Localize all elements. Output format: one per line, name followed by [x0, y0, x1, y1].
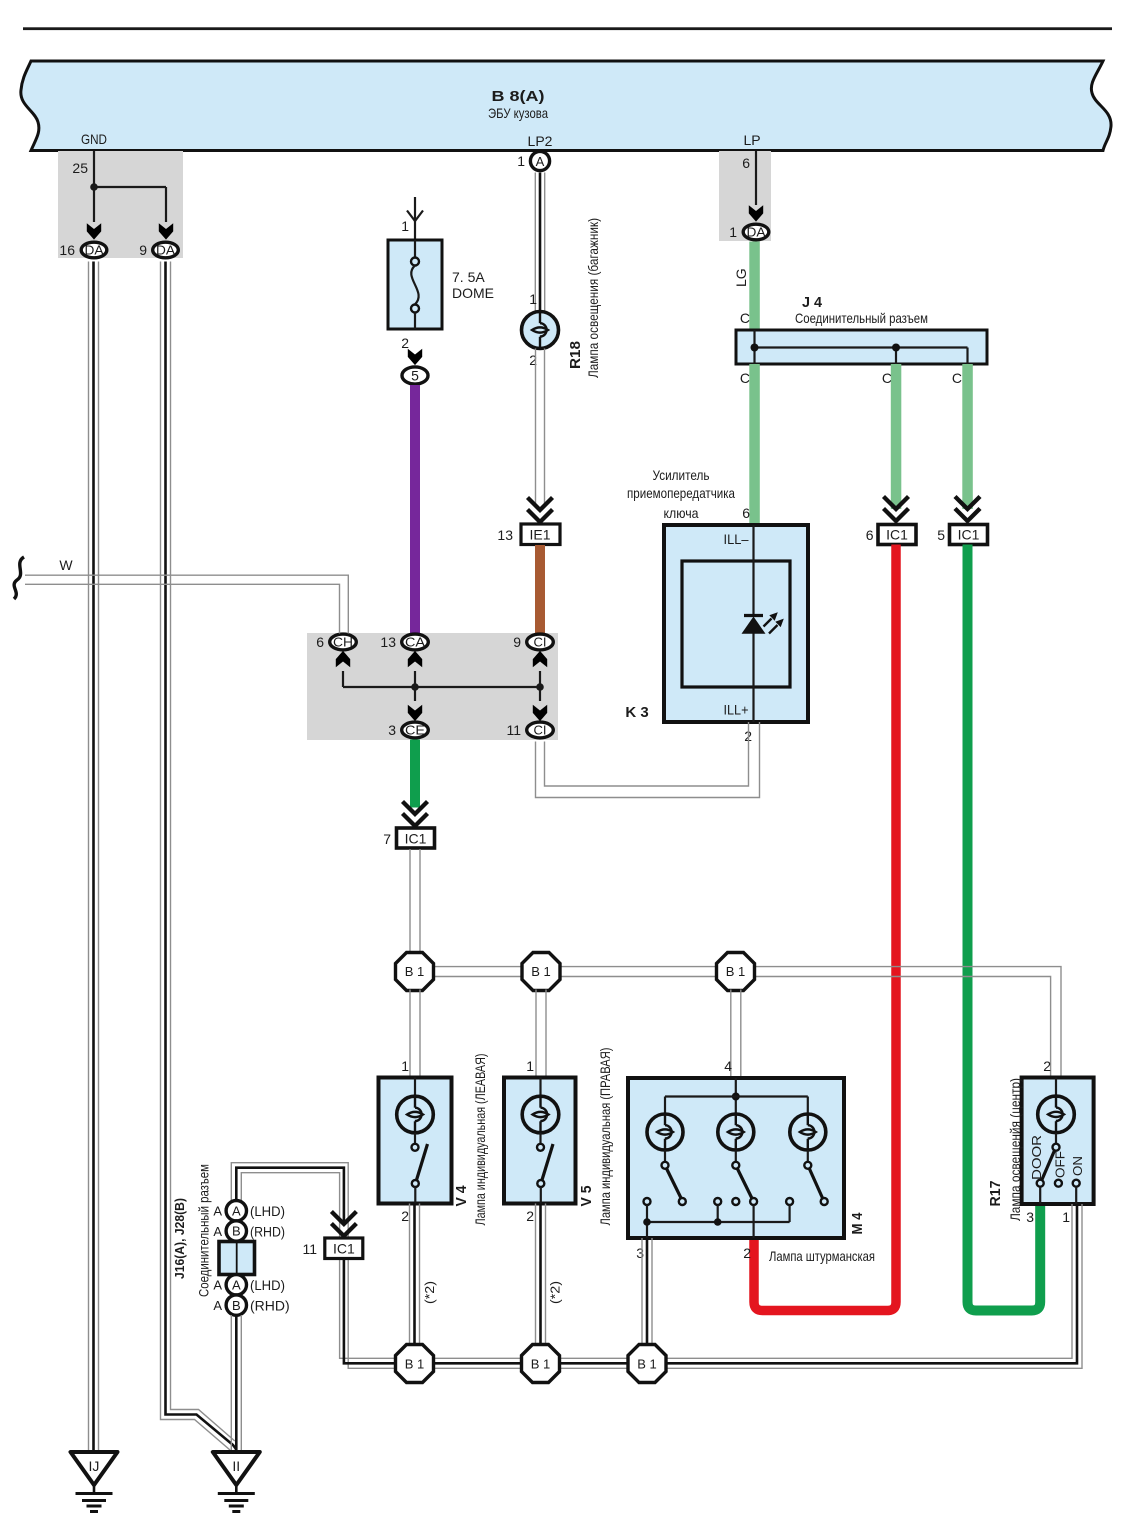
LED emission arrows — [764, 619, 772, 627]
wire LP to DA — [755, 151, 757, 205]
svg-text:R17: R17 — [987, 1181, 1004, 1207]
wire white B1 to V5 pin1 — [536, 990, 546, 1078]
arrow up into CI-9 — [533, 651, 547, 667]
svg-text:ON: ON — [1070, 1156, 1085, 1176]
wire W-B LP2 to lamp R18 — [535, 173, 544, 313]
svg-text:IC1: IC1 — [405, 831, 427, 847]
svg-text:Лампа индивидуальная (ЛЕАВАЯ): Лампа индивидуальная (ЛЕАВАЯ) — [472, 1054, 488, 1226]
arrow into IC1 pin11 — [331, 1212, 356, 1237]
wire W-B V5 pin2 to B1 — [536, 1204, 546, 1347]
svg-text:ILL–: ILL– — [724, 531, 749, 547]
svg-text:DA: DA — [85, 243, 104, 258]
wire white B1 to M4 pin4 — [731, 990, 741, 1079]
connector CH pin 6 — [316, 634, 356, 650]
svg-text:1: 1 — [526, 1058, 534, 1074]
svg-text:J 4: J 4 — [802, 294, 823, 311]
wire white bus B1 row top — [433, 967, 1062, 1078]
svg-text:V 5: V 5 — [578, 1186, 595, 1207]
svg-text:(RHD): (RHD) — [250, 1223, 285, 1239]
svg-text:A: A — [536, 154, 545, 169]
svg-text:5: 5 — [937, 527, 945, 543]
octagon B1 c — [717, 953, 755, 991]
svg-text:Соединительный разъем: Соединительный разъем — [196, 1164, 212, 1297]
connector 5 — [402, 367, 428, 384]
arrow into DA pin16 — [87, 223, 101, 239]
wire W-B from DA16 down to ground IJ — [89, 262, 99, 1453]
svg-text:C: C — [882, 370, 892, 386]
connector IC1 pin 5 — [937, 525, 987, 545]
wire white CI-11 to K3 pin2 — [536, 722, 760, 798]
switch V5 — [537, 1144, 544, 1151]
svg-text:(RHD): (RHD) — [250, 1297, 290, 1313]
wire white IC1-7 to B1 — [410, 849, 420, 954]
connector CI pin 9 — [513, 634, 553, 650]
connector circle A (LHD) top — [213, 1201, 285, 1221]
svg-text:6: 6 — [742, 155, 750, 171]
wire W-B bus B1b to B1c — [559, 1358, 630, 1368]
svg-text:C: C — [740, 370, 750, 386]
svg-text:1: 1 — [517, 153, 525, 169]
svg-text:6: 6 — [316, 634, 324, 650]
connector A pin 1 (LP2) — [517, 151, 549, 170]
octagon B1 b — [522, 953, 560, 991]
arrow into IC1 pin7 — [403, 802, 428, 827]
wire W-B from DA9 down and bent to ground II — [161, 262, 237, 1453]
octagon B1 f — [628, 1345, 666, 1383]
arrow into DA pin9 — [159, 223, 173, 239]
ground IJ — [71, 1452, 118, 1512]
svg-text:A: A — [232, 1278, 241, 1293]
lamp V4 individual (left) — [379, 1078, 452, 1204]
svg-text:A: A — [213, 1298, 222, 1313]
top border rule — [23, 27, 1112, 30]
wire G (green) CE to IC1 pin7 — [410, 740, 420, 808]
svg-text:A: A — [213, 1224, 222, 1239]
svg-text:ILL+: ILL+ — [724, 702, 749, 718]
svg-text:CH: CH — [333, 635, 353, 650]
svg-text:2: 2 — [401, 1208, 409, 1224]
svg-text:3: 3 — [1026, 1209, 1034, 1225]
svg-text:CI: CI — [534, 723, 547, 738]
svg-text:IC1: IC1 — [886, 527, 908, 543]
wire W-B M4 pin3 to B1 — [642, 1238, 652, 1346]
connector CI pin 11 — [506, 722, 553, 738]
svg-text:II: II — [232, 1458, 240, 1474]
wire W-B bus B1c to R17 pin1 — [665, 1204, 1082, 1368]
svg-text:B 1: B 1 — [531, 1356, 551, 1371]
connector circle A (LHD) bottom — [213, 1275, 285, 1295]
svg-text:CI: CI — [534, 635, 547, 650]
LED diode D1 — [744, 614, 763, 617]
svg-text:C: C — [740, 310, 750, 326]
svg-text:DOME: DOME — [452, 285, 494, 301]
svg-text:LG: LG — [733, 268, 749, 287]
wire LG J4 to IC1 pin5 — [962, 364, 973, 509]
connector body J16 — [219, 1242, 255, 1275]
wire W-B J16-B to ground II — [231, 1315, 241, 1452]
svg-text:B 1: B 1 — [405, 1356, 425, 1371]
svg-text:1: 1 — [729, 224, 737, 240]
lamp M4 spot light — [628, 1078, 844, 1238]
wire W-B bottom bus segment IC1-11 to B1a — [340, 1259, 397, 1369]
svg-text:DA: DA — [747, 225, 766, 240]
fuse feed arrow — [407, 197, 423, 240]
svg-text:(*2): (*2) — [422, 1281, 437, 1304]
svg-text:3: 3 — [636, 1245, 644, 1261]
switch R17 DOOR/OFF/ON — [1053, 1144, 1060, 1151]
GND splice shade box — [58, 151, 183, 258]
svg-text:Лампа освещенйя (центр): Лампа освещенйя (центр) — [1007, 1078, 1023, 1221]
svg-text:1: 1 — [401, 1058, 409, 1074]
octagon B1 a — [396, 953, 434, 991]
wire BR (brown) IE1 to CI — [535, 545, 545, 633]
wire white W to CH — [25, 575, 348, 633]
svg-text:приемопередатчика: приемопередатчика — [627, 485, 735, 501]
svg-text:2: 2 — [401, 335, 409, 351]
svg-text:B 1: B 1 — [726, 964, 746, 979]
junction node CA column — [411, 683, 419, 691]
svg-text:B 1: B 1 — [531, 964, 551, 979]
svg-text:7. 5A: 7. 5A — [452, 269, 485, 285]
connector DA pin 16 — [59, 242, 106, 258]
svg-text:М 4: М 4 — [849, 1212, 866, 1235]
wire white R18 to IE1 — [536, 349, 545, 508]
junction nodes M4 — [643, 1218, 651, 1226]
svg-text:J16(A), J28(B): J16(A), J28(B) — [172, 1198, 187, 1279]
bulb V5 — [539, 1078, 541, 1098]
svg-text:(LHD): (LHD) — [250, 1277, 285, 1293]
svg-text:B 1: B 1 — [637, 1356, 657, 1371]
octagon B1 e — [522, 1345, 560, 1383]
wire G (green) IC1-5 to R17 pin3 — [968, 545, 1041, 1311]
connector circle B (RHD) top — [213, 1221, 285, 1241]
svg-text:C: C — [952, 370, 962, 386]
svg-text:25: 25 — [72, 160, 88, 176]
svg-text:(LHD): (LHD) — [250, 1203, 285, 1219]
svg-text:6: 6 — [866, 527, 874, 543]
svg-text:2: 2 — [526, 1208, 534, 1224]
arrow into connector 5 — [408, 349, 422, 365]
svg-text:Лампа штурманская: Лампа штурманская — [769, 1248, 875, 1264]
bulb M4 middle — [718, 1114, 754, 1150]
wire white B1 to V4 pin1 — [410, 990, 420, 1078]
svg-text:Лампа индивидуальная (ПРАВАЯ): Лампа индивидуальная (ПРАВАЯ) — [597, 1048, 613, 1226]
wire R (red) IC1-6 to M4 pin2 — [754, 545, 896, 1311]
svg-text:(*2): (*2) — [548, 1281, 563, 1304]
switch V4 — [412, 1144, 419, 1151]
svg-text:2: 2 — [743, 1245, 751, 1261]
connector DA pin 9 — [139, 242, 178, 258]
svg-text:R18: R18 — [567, 341, 584, 369]
connector circle B (RHD) bottom — [213, 1295, 289, 1315]
wire W-B J16-A up to IC1-11 — [231, 1163, 348, 1238]
svg-text:IC1: IC1 — [958, 527, 980, 543]
bulb V4 — [414, 1078, 416, 1098]
wire W-B bus B1a to B1b — [433, 1358, 523, 1368]
svg-text:ключа: ключа — [664, 505, 699, 521]
junction node CI column — [536, 683, 544, 691]
svg-text:Усилитель: Усилитель — [653, 467, 710, 483]
svg-text:A: A — [232, 1203, 241, 1218]
svg-text:IE1: IE1 — [529, 527, 550, 543]
svg-text:DOOR: DOOR — [1029, 1135, 1044, 1180]
svg-text:V 4: V 4 — [453, 1185, 470, 1207]
svg-text:Соединительный разъем: Соединительный разъем — [795, 310, 928, 326]
connector CA pin 13 — [380, 634, 428, 650]
break squiggle at W — [14, 557, 24, 599]
ECU body band B 8(A) ЭБУ кузова — [21, 61, 1111, 151]
svg-text:K 3: K 3 — [625, 704, 648, 721]
svg-text:4: 4 — [724, 1058, 732, 1074]
arrow into IE1 — [528, 498, 553, 523]
svg-text:IJ: IJ — [89, 1458, 100, 1474]
junction node on GND wire — [90, 183, 98, 191]
svg-text:2: 2 — [1043, 1058, 1051, 1074]
svg-text:DA: DA — [156, 243, 175, 258]
arrow up into CA — [408, 651, 422, 667]
svg-text:CE: CE — [405, 723, 425, 738]
bulb M4 right — [790, 1114, 826, 1150]
LP splice shade box — [719, 151, 771, 241]
svg-text:11: 11 — [506, 722, 521, 738]
connector IC1 pin 7 — [383, 828, 434, 848]
connector CE pin 3 — [388, 722, 428, 738]
svg-text:5: 5 — [411, 368, 419, 384]
svg-text:13: 13 — [497, 527, 513, 543]
svg-text:Лампа освещения (багажник): Лампа освещения (багажник) — [585, 218, 601, 378]
arrow into DA pin1 — [749, 205, 763, 221]
junction connector J4 — [736, 294, 987, 364]
svg-text:6: 6 — [742, 505, 750, 521]
svg-text:3: 3 — [388, 722, 396, 738]
svg-text:W: W — [59, 557, 73, 573]
arrow down into CI-11 — [533, 705, 547, 721]
K3 key transceiver amplifier — [625, 467, 808, 744]
wire GND pin25 to splice — [94, 151, 166, 222]
svg-text:ЭБУ кузова: ЭБУ кузова — [488, 105, 548, 121]
svg-text:A: A — [213, 1278, 222, 1293]
internal wires of splice — [343, 671, 540, 701]
bulb M4 left — [647, 1114, 683, 1150]
svg-text:OFF: OFF — [1053, 1151, 1068, 1178]
svg-text:B: B — [232, 1224, 241, 1239]
fuse 7.5A DOME — [388, 240, 494, 329]
arrow down into CE — [408, 705, 422, 721]
connector IE1 pin 13 — [497, 524, 560, 545]
svg-text:1: 1 — [1062, 1209, 1070, 1225]
wire LG J4 to K3 pin6 — [749, 364, 760, 525]
lamp R18 (trunk light) — [522, 312, 559, 349]
svg-text:9: 9 — [139, 242, 147, 258]
wire W-B V4 pin2 to B1 — [410, 1204, 420, 1347]
splice shade box CH CA CI CE — [307, 633, 558, 740]
arrow into IC1 pin5 — [955, 497, 980, 522]
bulb R17 — [1038, 1096, 1075, 1133]
svg-text:1: 1 — [529, 291, 537, 307]
svg-text:B 8(A): B 8(A) — [492, 88, 545, 105]
svg-text:LP2: LP2 — [528, 133, 553, 149]
svg-text:GND: GND — [81, 131, 107, 147]
octagon B1 d — [396, 1345, 434, 1383]
switches M4 — [667, 1169, 682, 1199]
svg-text:9: 9 — [513, 634, 521, 650]
svg-text:7: 7 — [383, 831, 391, 847]
svg-text:B 1: B 1 — [405, 964, 425, 979]
connector DA pin 1 — [729, 224, 769, 240]
svg-text:A: A — [213, 1204, 222, 1219]
svg-text:11: 11 — [302, 1241, 317, 1257]
ground II — [213, 1452, 260, 1512]
lamp V5 individual (right) — [504, 1078, 576, 1204]
svg-text:IC1: IC1 — [333, 1241, 355, 1257]
svg-text:B: B — [232, 1298, 241, 1313]
svg-text:LP: LP — [743, 132, 760, 148]
fuse element — [414, 240, 416, 258]
wire K3 internal — [752, 525, 754, 614]
connector IC1 pin 11 — [302, 1238, 362, 1259]
K3 inner frame — [682, 561, 790, 687]
lamp R17 center light — [1022, 1078, 1094, 1205]
wire LG J4 to IC1 pin6 — [891, 364, 902, 509]
arrow into IC1 pin6 — [884, 497, 909, 522]
connector IC1 pin 6 — [866, 525, 916, 545]
svg-text:13: 13 — [380, 634, 396, 650]
svg-text:1: 1 — [401, 218, 409, 234]
svg-text:CA: CA — [405, 635, 425, 650]
wire LG light green DA to J4 — [749, 242, 760, 331]
wire V (purple) connector5 to CA — [410, 385, 420, 633]
arrow up into CH — [336, 651, 350, 667]
svg-text:16: 16 — [59, 242, 75, 258]
